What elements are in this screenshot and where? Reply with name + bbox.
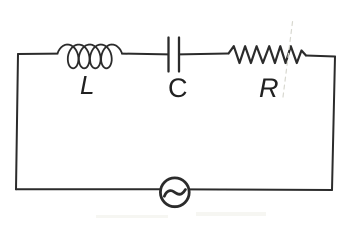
label L — [80, 70, 94, 101]
wire left vertical — [16, 54, 18, 189]
wire bottom right segment — [190, 188, 333, 191]
faint caption smudge right — [196, 212, 266, 216]
capacitor C plates — [167, 38, 169, 72]
wire capacitor to resistor — [180, 53, 229, 56]
label C — [168, 73, 188, 104]
faint caption smudge left — [96, 215, 168, 218]
label R — [259, 73, 279, 104]
wire top-left segment — [18, 53, 58, 55]
wire coil to capacitor — [122, 53, 168, 56]
inductor L — [58, 45, 123, 69]
AC source tilde — [164, 190, 185, 197]
faint scratch artifact — [283, 18, 293, 97]
AC source circle — [160, 178, 189, 207]
wire bottom left segment — [16, 188, 160, 190]
resistor R zigzag — [229, 46, 307, 63]
wire resistor to top-right corner — [306, 56, 335, 57]
wire right vertical — [332, 57, 335, 191]
